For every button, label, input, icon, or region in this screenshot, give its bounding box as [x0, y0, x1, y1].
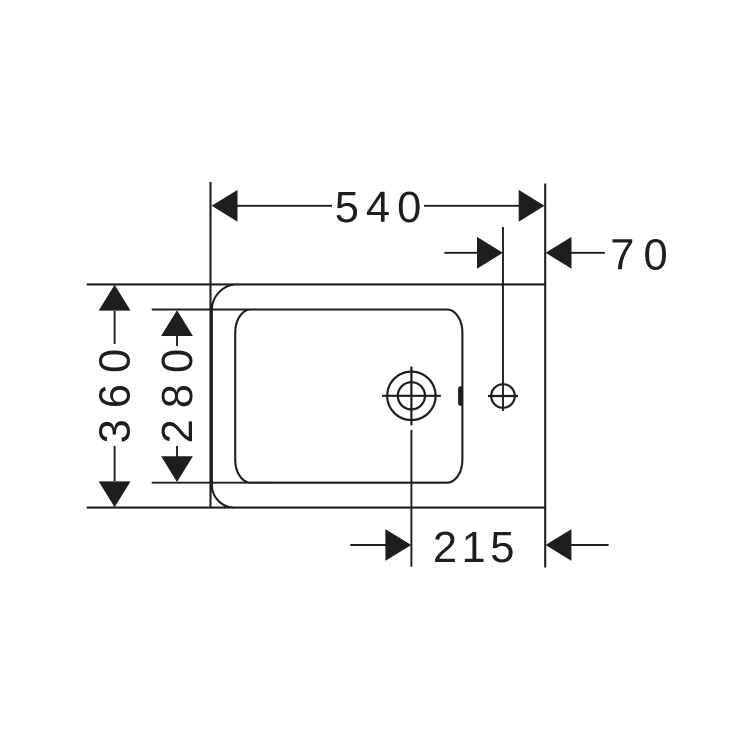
drain crosshair vertical: [410, 367, 412, 426]
rim line (rounded left corners): [212, 284, 238, 507]
arrowhead 215 right (points left at product edge): [546, 529, 572, 561]
overflow slot: [458, 389, 463, 404]
drain 215 extension line: [410, 430, 412, 567]
280 top extension line: [152, 309, 272, 311]
arrowhead 70 left (points right at tap line): [477, 237, 503, 269]
arrowhead 215 left (points right at drain line): [385, 529, 411, 561]
280 bottom extension line: [152, 482, 272, 484]
dimension line 70 right tail: [571, 252, 605, 254]
svg-text:215: 215: [433, 524, 519, 572]
tap hole extension line vertical: [502, 227, 504, 411]
dimension line 215 left tail: [350, 544, 386, 546]
arrowhead 280 bottom: [161, 456, 193, 482]
product top edge + 360 extension line: [87, 283, 546, 285]
tap hole crosshair horizontal: [488, 395, 518, 397]
arrowhead 280 top: [161, 310, 193, 336]
basin inner rounded rectangle: [235, 310, 462, 483]
drain outer circle: [387, 372, 435, 420]
product right edge + 540/215 extension line: [544, 184, 546, 568]
product left edge + 540 extension line: [209, 182, 211, 508]
svg-text:280: 280: [154, 338, 202, 444]
svg-text:360: 360: [92, 338, 140, 444]
product bottom edge + 360 extension line: [87, 507, 546, 509]
dimension line 70 left tail: [444, 252, 478, 254]
dimension line 540: [237, 205, 332, 207]
drain crosshair horizontal: [382, 395, 441, 397]
arrowhead 70 right (points left at product edge): [546, 237, 572, 269]
arrowhead 360 bottom: [99, 481, 131, 507]
dimension line 280: [176, 336, 178, 346]
dimension line 360: [114, 311, 116, 344]
drain inner circle: [398, 382, 425, 409]
arrowhead 540 right: [519, 190, 545, 222]
svg-text:540: 540: [335, 184, 429, 232]
dimension line 215 right tail: [571, 544, 609, 546]
tap hole circle: [491, 384, 515, 408]
arrowhead 540 left: [212, 190, 238, 222]
svg-text:70: 70: [610, 232, 676, 280]
arrowhead 360 top: [99, 285, 131, 311]
